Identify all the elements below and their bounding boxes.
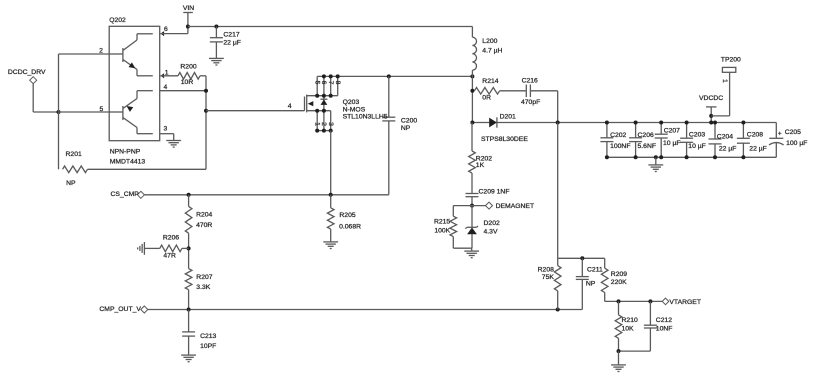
svg-text:8: 8 bbox=[334, 81, 341, 85]
svg-text:470R: 470R bbox=[196, 222, 212, 229]
svg-text:22 µF: 22 µF bbox=[223, 40, 241, 47]
svg-text:22 µF: 22 µF bbox=[719, 146, 737, 153]
svg-text:75K: 75K bbox=[542, 274, 555, 281]
svg-text:R210: R210 bbox=[622, 317, 638, 324]
svg-text:C213: C213 bbox=[200, 333, 216, 340]
svg-text:C208: C208 bbox=[747, 132, 763, 139]
svg-text:5: 5 bbox=[313, 81, 320, 85]
svg-text:L200: L200 bbox=[482, 38, 497, 45]
svg-text:3.3K: 3.3K bbox=[196, 284, 210, 291]
svg-text:D201: D201 bbox=[500, 114, 516, 121]
svg-text:R208: R208 bbox=[538, 267, 554, 274]
svg-text:NP: NP bbox=[586, 281, 596, 288]
svg-text:Q203: Q203 bbox=[343, 99, 360, 106]
svg-text:470pF: 470pF bbox=[521, 99, 540, 106]
svg-text:D202: D202 bbox=[484, 220, 500, 227]
svg-text:5: 5 bbox=[100, 106, 104, 113]
svg-text:N-MOS: N-MOS bbox=[343, 106, 366, 113]
svg-text:TP200: TP200 bbox=[721, 57, 741, 64]
svg-text:10 µF: 10 µF bbox=[663, 140, 681, 147]
svg-text:NP: NP bbox=[66, 180, 76, 187]
svg-text:C211: C211 bbox=[587, 267, 603, 274]
svg-text:1K: 1K bbox=[476, 162, 485, 169]
svg-text:R200: R200 bbox=[180, 63, 196, 70]
svg-text:2: 2 bbox=[99, 47, 103, 54]
svg-text:10 µF: 10 µF bbox=[688, 143, 706, 150]
svg-text:CMP_OUT_V: CMP_OUT_V bbox=[99, 306, 141, 313]
svg-text:220K: 220K bbox=[611, 279, 627, 286]
svg-text:DCDC_DRV: DCDC_DRV bbox=[8, 69, 46, 76]
svg-text:100NF: 100NF bbox=[610, 143, 630, 150]
svg-text:1: 1 bbox=[721, 79, 728, 83]
svg-text:NPN-PNP: NPN-PNP bbox=[110, 149, 141, 156]
svg-text:10NF: 10NF bbox=[656, 326, 673, 333]
svg-text:1: 1 bbox=[165, 70, 169, 77]
svg-text:C205: C205 bbox=[785, 129, 801, 136]
svg-text:C217: C217 bbox=[223, 31, 239, 38]
svg-text:6: 6 bbox=[164, 26, 168, 33]
svg-text:R205: R205 bbox=[339, 212, 355, 219]
svg-text:C200: C200 bbox=[401, 117, 417, 124]
svg-text:C204: C204 bbox=[717, 134, 733, 141]
svg-text:4: 4 bbox=[288, 103, 292, 110]
svg-text:STPS8L30DEE: STPS8L30DEE bbox=[481, 136, 528, 143]
svg-text:R201: R201 bbox=[66, 151, 82, 158]
svg-text:C202: C202 bbox=[610, 132, 626, 139]
svg-text:4.3V: 4.3V bbox=[484, 228, 498, 235]
svg-text:22 µF: 22 µF bbox=[749, 146, 767, 153]
svg-text:7: 7 bbox=[327, 81, 334, 85]
svg-text:0R: 0R bbox=[482, 94, 491, 101]
svg-text:100K: 100K bbox=[434, 227, 450, 234]
svg-text:10R: 10R bbox=[181, 79, 194, 86]
svg-text:C216: C216 bbox=[522, 77, 538, 84]
svg-text:CS_CMP: CS_CMP bbox=[111, 191, 140, 198]
svg-text:+: + bbox=[778, 131, 782, 138]
svg-text:C212: C212 bbox=[656, 317, 672, 324]
svg-text:DEMAGNET: DEMAGNET bbox=[496, 203, 535, 210]
svg-text:R206: R206 bbox=[163, 234, 179, 241]
svg-text:R204: R204 bbox=[196, 212, 212, 219]
svg-text:C206: C206 bbox=[638, 132, 654, 139]
svg-text:R215: R215 bbox=[434, 219, 450, 226]
svg-text:MMDT4413: MMDT4413 bbox=[110, 159, 146, 166]
svg-text:47R: 47R bbox=[163, 253, 176, 260]
svg-text:5.6NF: 5.6NF bbox=[638, 143, 657, 150]
svg-text:10K: 10K bbox=[622, 325, 635, 332]
svg-text:10PF: 10PF bbox=[200, 343, 216, 350]
svg-text:C203: C203 bbox=[689, 132, 705, 139]
svg-text:STL10N3LLH5: STL10N3LLH5 bbox=[343, 113, 388, 120]
svg-text:4: 4 bbox=[164, 84, 168, 91]
svg-text:1: 1 bbox=[313, 122, 320, 126]
svg-text:0.068R: 0.068R bbox=[339, 223, 361, 230]
svg-text:R214: R214 bbox=[482, 78, 498, 85]
svg-text:R209: R209 bbox=[611, 271, 627, 278]
svg-text:3: 3 bbox=[164, 126, 168, 133]
svg-text:C209 1NF: C209 1NF bbox=[479, 188, 510, 195]
svg-text:C207: C207 bbox=[664, 128, 680, 135]
svg-text:4.7 µH: 4.7 µH bbox=[482, 48, 502, 55]
svg-text:VDCDC: VDCDC bbox=[699, 95, 723, 102]
svg-text:3: 3 bbox=[327, 122, 334, 126]
svg-text:100 µF: 100 µF bbox=[786, 140, 807, 147]
svg-text:NP: NP bbox=[401, 125, 411, 132]
svg-text:VIN: VIN bbox=[183, 5, 194, 12]
svg-text:VTARGET: VTARGET bbox=[669, 299, 701, 306]
svg-text:2: 2 bbox=[320, 122, 327, 126]
svg-text:6: 6 bbox=[320, 81, 327, 85]
svg-text:R207: R207 bbox=[196, 274, 212, 281]
svg-text:Q202: Q202 bbox=[109, 17, 126, 24]
